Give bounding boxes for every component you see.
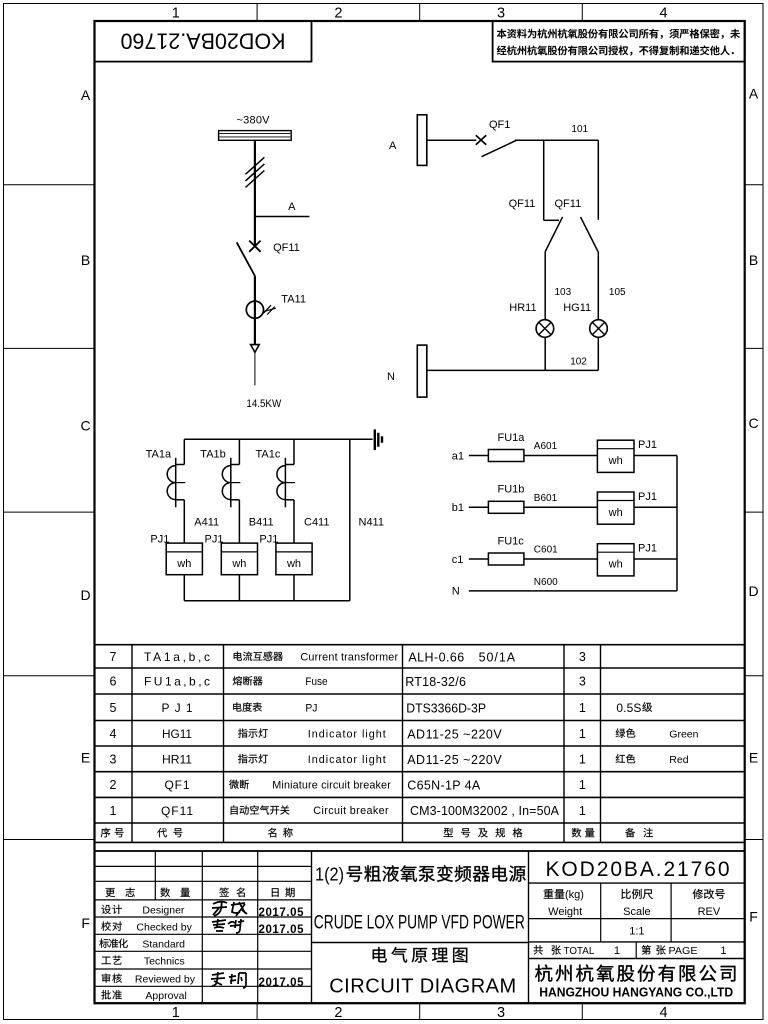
svg-text:C: C [748, 415, 758, 431]
wire b1 to fuse [469, 506, 489, 508]
company name CN [535, 964, 735, 981]
wire meter 1 to bottom [183, 575, 185, 601]
BOM header: remark [625, 828, 653, 838]
title row 设计 Designer [101, 905, 121, 914]
busbar A (control) [417, 115, 427, 166]
svg-text:PJ1: PJ1 [205, 534, 224, 546]
current transformer TA1b [238, 439, 240, 464]
three-phase slash marks [245, 157, 264, 174]
svg-text:REV: REV [698, 906, 721, 918]
feeder arrow head [251, 345, 260, 353]
signature designer [212, 901, 247, 916]
title middle divider [312, 942, 529, 944]
breaker QF1 contact cross [476, 135, 486, 144]
svg-text:50/1A: 50/1A [479, 650, 516, 664]
svg-text:FU1b: FU1b [498, 484, 525, 496]
svg-text:4: 4 [110, 727, 117, 741]
svg-text:1: 1 [110, 804, 117, 818]
svg-text:HG11: HG11 [162, 727, 192, 741]
fuse FU1a [488, 450, 524, 462]
svg-text:2017.05: 2017.05 [259, 924, 305, 936]
svg-text:F: F [81, 915, 90, 931]
BOM header: model [444, 828, 523, 837]
svg-text:3: 3 [497, 6, 505, 22]
svg-text:N: N [387, 371, 395, 383]
svg-text:HG11: HG11 [563, 302, 591, 314]
svg-text:N411: N411 [359, 517, 384, 529]
svg-text:Fuse: Fuse [305, 676, 327, 688]
svg-text:c1: c1 [452, 554, 464, 566]
QF11 NO aux contact [581, 217, 599, 252]
svg-text:1(2): 1(2) [315, 864, 344, 884]
svg-text:PJ1: PJ1 [162, 701, 193, 715]
BOM row 3: remark [616, 754, 636, 763]
svg-text:CIRCUIT DIAGRAM: CIRCUIT DIAGRAM [329, 975, 516, 997]
svg-text:4: 4 [660, 1005, 668, 1021]
svg-text:PJ1: PJ1 [638, 543, 657, 555]
wire N600 [469, 590, 677, 592]
notice text line 2 [497, 45, 734, 55]
rev cell [693, 889, 725, 899]
svg-text:F: F [749, 909, 758, 925]
svg-text:HANGZHOU HANGYANG CO.,LTD: HANGZHOU HANGYANG CO.,LTD [539, 985, 733, 1000]
svg-text:~380V: ~380V [237, 115, 271, 127]
signature reviewer [211, 972, 246, 988]
energy meter PJ1 (wh) row c1 [597, 544, 634, 576]
svg-text:TA1b: TA1b [200, 449, 225, 461]
BOM row 1: name CN [231, 805, 290, 814]
svg-text:B601: B601 [534, 493, 558, 504]
feeder continuation line [254, 352, 256, 385]
BOM header: code [157, 828, 182, 837]
svg-text:a1: a1 [452, 450, 464, 462]
svg-text:Designer: Designer [142, 905, 185, 917]
svg-text:D: D [81, 587, 91, 603]
svg-text:C65N-1P 4A: C65N-1P 4A [407, 779, 481, 793]
svg-text:Miniature circuit breaker: Miniature circuit breaker [272, 780, 391, 792]
svg-text:3: 3 [579, 675, 586, 689]
svg-text:2017.05: 2017.05 [259, 907, 305, 919]
svg-text:B: B [749, 252, 758, 268]
BOM row 5: name CN [233, 702, 262, 711]
svg-text:Circuit breaker: Circuit breaker [313, 805, 389, 817]
svg-text:N600: N600 [534, 577, 558, 588]
drawing number text KOD20BA.21760 rotated 180deg [121, 29, 286, 54]
svg-text:wh: wh [176, 558, 191, 570]
BOM table grid [95, 644, 745, 646]
current transformer TA1a [183, 439, 185, 464]
svg-text:1: 1 [579, 804, 586, 818]
svg-text:Scale: Scale [623, 906, 651, 918]
wire a1 to fuse [469, 455, 489, 457]
title row 校对 Checked by [101, 921, 121, 930]
svg-text:FU1c: FU1c [498, 535, 525, 547]
svg-text:Indicator light: Indicator light [308, 754, 386, 766]
title row 标准化 Standard [99, 939, 128, 948]
svg-text:2: 2 [334, 6, 342, 22]
current transformer TA11 circle [246, 301, 263, 318]
total sheets cell [533, 945, 560, 954]
wire: right branch down from 101 [597, 140, 599, 220]
BOM row 4: remark [616, 728, 636, 737]
BOM header: name [268, 828, 293, 838]
busbar N (control) [417, 345, 427, 397]
current transformer TA1c [293, 439, 295, 464]
svg-text:Green: Green [669, 728, 698, 740]
svg-text:wh: wh [608, 455, 623, 467]
svg-text:3: 3 [497, 1005, 505, 1021]
svg-text:FU1a,b,c: FU1a,b,c [144, 675, 210, 689]
wire N411 vertical [349, 439, 351, 600]
svg-text:PJ1: PJ1 [638, 439, 657, 451]
svg-text:1: 1 [720, 945, 726, 957]
page cell [642, 945, 666, 955]
svg-text:B: B [81, 252, 90, 268]
svg-text:1:1: 1:1 [629, 926, 644, 938]
svg-text:1: 1 [172, 6, 180, 22]
svg-text:QF11: QF11 [161, 804, 193, 818]
svg-text:5: 5 [110, 701, 117, 715]
indicator lamp HR11 [536, 320, 554, 338]
svg-text:PJ1: PJ1 [150, 534, 169, 546]
svg-text:1: 1 [614, 945, 620, 957]
breaker QF11 blade [237, 242, 255, 276]
svg-text:TA1a,b,c: TA1a,b,c [144, 650, 210, 664]
svg-text:FU1a: FU1a [498, 432, 526, 444]
svg-text:wh: wh [608, 507, 623, 519]
svg-text:Technics: Technics [144, 956, 185, 968]
svg-text:1: 1 [172, 1005, 180, 1021]
svg-text:14.5KW: 14.5KW [246, 398, 281, 410]
svg-text:105: 105 [609, 287, 626, 298]
indicator lamp HG11 [590, 320, 608, 338]
fuse FU1c [488, 553, 524, 565]
BOM header: seq [101, 828, 124, 838]
svg-text:103: 103 [555, 287, 572, 298]
svg-text:Approval: Approval [145, 990, 186, 1002]
wire: busbar down to breaker QF11 [254, 140, 256, 246]
energy meter PJ1 (wh) #3 [276, 543, 312, 575]
signature checker [212, 919, 244, 933]
wire node 101 [515, 139, 598, 141]
svg-text:2017.05: 2017.05 [259, 977, 305, 989]
drawing type CN [373, 947, 468, 963]
BOM row 4: name CN [238, 728, 268, 737]
title block header: rev/qty/sign/date [105, 888, 134, 897]
wire meter to right bus row b1 [634, 506, 677, 508]
svg-text:wh: wh [286, 558, 301, 570]
wire fuse to meter row a1 [524, 455, 598, 457]
svg-text:1: 1 [579, 727, 586, 741]
svg-text:E: E [81, 750, 90, 766]
svg-text:QF11: QF11 [509, 198, 536, 210]
svg-text:C: C [81, 417, 91, 433]
wire 105 [597, 252, 599, 321]
svg-text:A: A [288, 201, 296, 213]
QF11 NC aux contact [544, 219, 559, 221]
energy meter PJ1 (wh) #2 [221, 543, 257, 575]
CT section bottom wire [184, 600, 349, 602]
svg-text:TOTAL: TOTAL [564, 945, 595, 957]
wire busbar A to QF1 [427, 139, 477, 141]
svg-text:PJ: PJ [305, 702, 317, 714]
busbar 380V (hatched) [219, 131, 292, 141]
svg-text:TA11: TA11 [281, 293, 306, 305]
fuse FU1b [488, 501, 524, 513]
svg-text:7: 7 [110, 650, 117, 664]
right bus vertical wire [676, 456, 678, 591]
svg-text:4: 4 [660, 6, 668, 22]
wire c1 to fuse [469, 558, 489, 560]
energy meter PJ1 (wh) row a1 [597, 440, 634, 472]
wire meter 2 to bottom [238, 575, 240, 601]
svg-text:2: 2 [110, 778, 117, 792]
svg-text:D: D [748, 583, 758, 599]
energy meter PJ1 (wh) row b1 [597, 492, 634, 524]
svg-text:PJ1: PJ1 [638, 491, 657, 503]
svg-text:A: A [389, 140, 397, 152]
wire: breaker to CT TA11 [254, 276, 256, 345]
svg-text:PJ1: PJ1 [259, 534, 278, 546]
breaker QF1 blade [482, 140, 517, 157]
title block outline [95, 851, 745, 1003]
scale cell [621, 889, 653, 899]
drawing number box (top-left) [95, 21, 312, 62]
ground symbol [374, 429, 376, 450]
svg-text:KOD20BA.21760: KOD20BA.21760 [546, 858, 730, 881]
svg-text:KOD20BA.21760: KOD20BA.21760 [121, 29, 286, 54]
top zone column ticks [256, 4, 258, 22]
svg-text:QF11: QF11 [273, 242, 300, 254]
wire meter 3 to bottom [293, 575, 295, 601]
svg-text:HR11: HR11 [509, 302, 536, 314]
svg-text:Weight: Weight [548, 906, 582, 918]
title row 批准 Approval [101, 990, 121, 999]
svg-text:B411: B411 [249, 517, 274, 529]
svg-text:Indicator light: Indicator light [308, 728, 386, 740]
svg-text:TA1a: TA1a [146, 449, 172, 461]
wire below HR11 [544, 337, 546, 370]
energy meter PJ1 (wh) #1 [166, 543, 202, 575]
svg-text:3: 3 [110, 752, 117, 766]
wire meter to right bus row a1 [634, 455, 677, 457]
svg-text:2: 2 [334, 1005, 342, 1021]
svg-text:C411: C411 [304, 517, 329, 529]
svg-text:Reviewed by: Reviewed by [135, 974, 196, 986]
svg-text:QF11: QF11 [555, 198, 582, 210]
title row 工艺 Technics [102, 956, 122, 965]
title row 审核 Reviewed by [102, 973, 122, 982]
svg-text:CM3-100M32002 , In=50A: CM3-100M32002 , In=50A [410, 804, 560, 818]
wire fuse to meter row b1 [524, 506, 598, 508]
svg-text:QF1: QF1 [165, 778, 190, 792]
svg-text:TA1c: TA1c [256, 449, 281, 461]
BOM row 3: name CN [238, 754, 268, 763]
svg-text:0.5S: 0.5S [616, 701, 641, 715]
svg-text:b1: b1 [452, 502, 464, 514]
BOM row 7: name CN [234, 651, 283, 660]
title right grid [529, 882, 745, 884]
breaker QF11 contact cross [249, 241, 260, 252]
svg-text:1: 1 [579, 701, 586, 715]
left zone row dividers [4, 184, 95, 186]
svg-text:A: A [749, 86, 759, 102]
svg-text:PAGE: PAGE [669, 945, 698, 957]
title block left grid [95, 865, 312, 867]
wire node 102 [427, 369, 599, 371]
bottom zone column ticks [256, 1003, 258, 1019]
svg-text:1: 1 [579, 778, 586, 792]
svg-text:CRUDE LOX PUMP VFD POWER: CRUDE LOX PUMP VFD POWER [314, 913, 525, 934]
CT section top wire [184, 438, 372, 440]
wire: node101 down to QF11 NC aux contact [543, 140, 545, 220]
svg-text:AD11-25 ~220V: AD11-25 ~220V [407, 727, 502, 741]
svg-text:C601: C601 [534, 545, 558, 556]
BOM header: qty [572, 828, 595, 838]
BOM row 2: name CN [229, 780, 249, 789]
TA11 wire tap hash [264, 305, 272, 313]
branch wire to node A [255, 216, 310, 218]
svg-text:3: 3 [579, 650, 586, 664]
svg-text:1: 1 [579, 752, 586, 766]
wire meter to right bus row c1 [634, 558, 677, 560]
svg-text:wh: wh [608, 559, 623, 571]
BOM row 6: name CN [233, 676, 263, 685]
svg-text:ALH-0.66: ALH-0.66 [408, 650, 464, 664]
svg-text:Current transformer: Current transformer [300, 651, 398, 663]
svg-text:A601: A601 [534, 441, 558, 452]
wire below HG11 [597, 337, 599, 370]
svg-text:101: 101 [571, 124, 588, 135]
svg-text:A: A [81, 87, 91, 103]
confidentiality notice box [493, 21, 745, 62]
right zone row dividers [745, 184, 763, 186]
svg-text:Red: Red [669, 754, 688, 766]
svg-text:Standard: Standard [142, 939, 185, 951]
svg-text:102: 102 [570, 356, 587, 367]
svg-text:Checked by: Checked by [136, 921, 192, 933]
notice text line 1 [497, 29, 740, 39]
svg-text:(kg): (kg) [565, 889, 584, 901]
weight cell [544, 889, 565, 899]
svg-text:6: 6 [110, 675, 117, 689]
svg-text:AD11-25 ~220V: AD11-25 ~220V [407, 753, 502, 767]
svg-text:QF1: QF1 [489, 119, 510, 131]
svg-text:E: E [749, 750, 758, 766]
svg-text:N: N [452, 586, 460, 598]
svg-text:RT18-32/6: RT18-32/6 [405, 675, 466, 689]
wire 103 [544, 252, 546, 321]
svg-text:wh: wh [231, 558, 246, 570]
svg-text:DTS3366D-3P: DTS3366D-3P [406, 701, 486, 715]
svg-text:A411: A411 [194, 517, 219, 529]
wire fuse to meter row c1 [524, 558, 598, 560]
svg-text:HR11: HR11 [162, 752, 192, 766]
